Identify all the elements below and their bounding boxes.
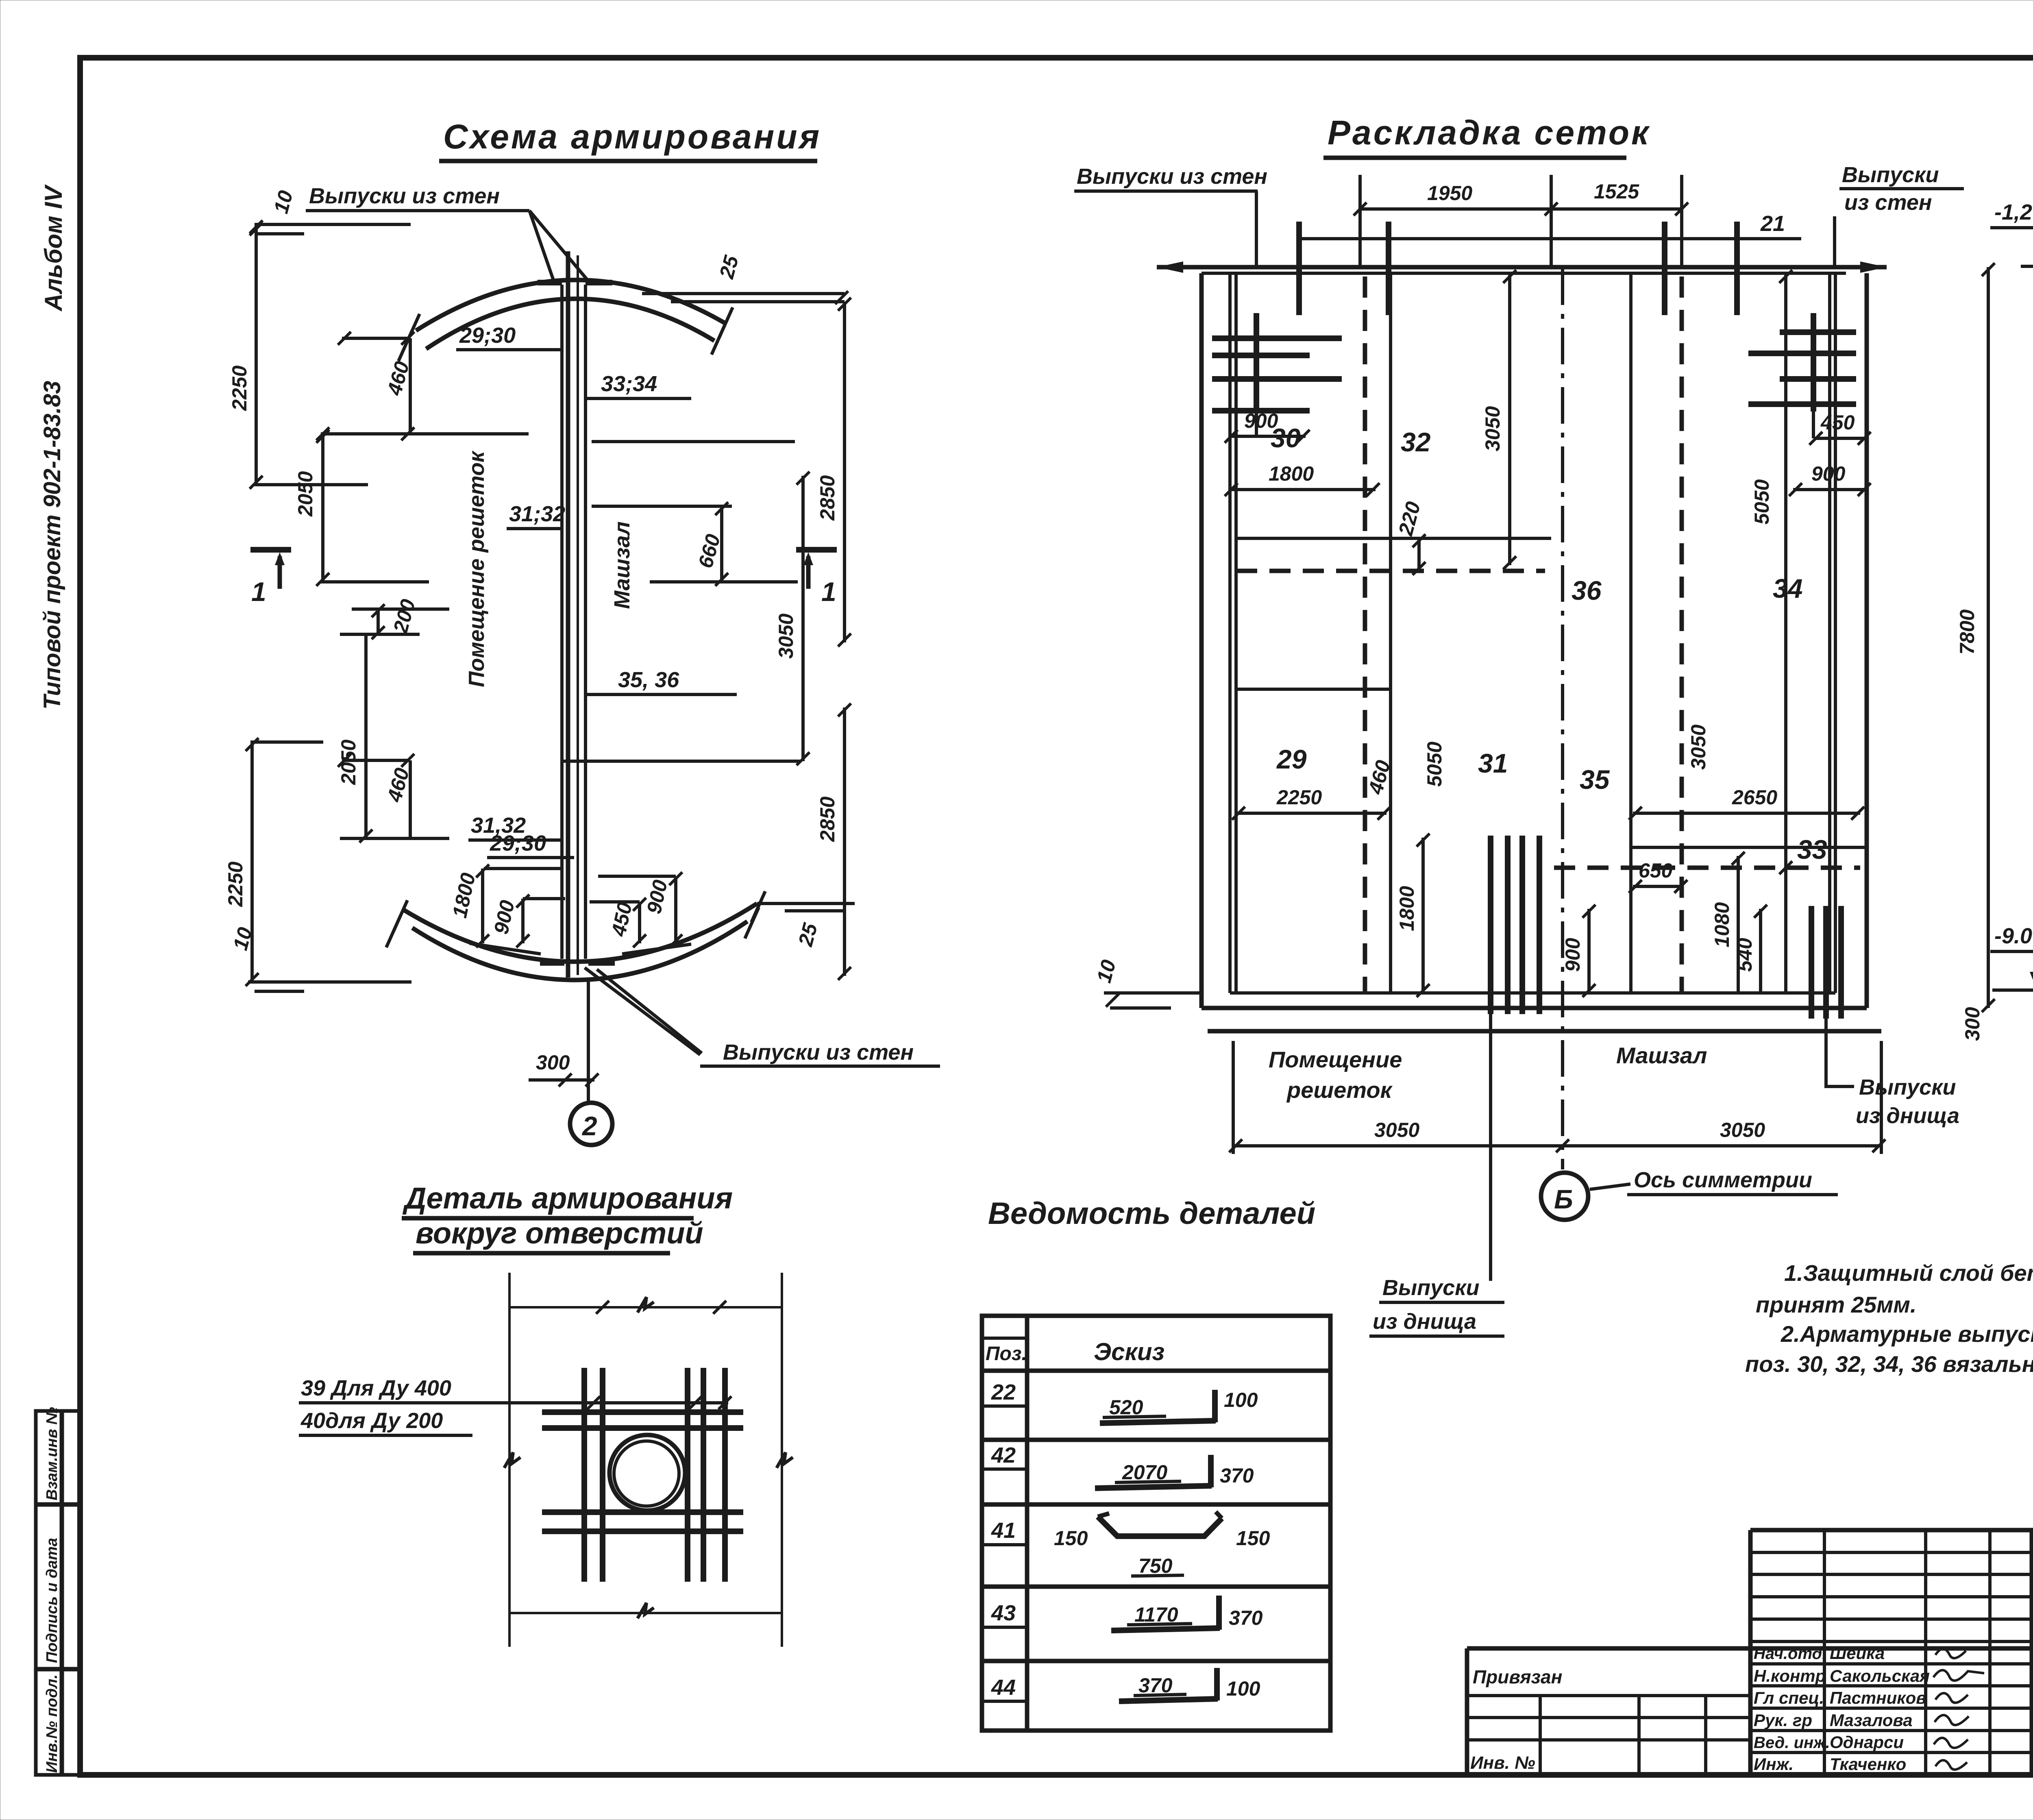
svg-text:900: 900	[490, 898, 519, 936]
line above Стена СТп2	[2032, 1730, 2033, 1735]
tank bottom inner line	[1230, 991, 1835, 995]
tank left wall outer	[1199, 273, 1204, 1008]
svg-text:решеток: решеток	[1286, 1077, 1393, 1103]
svg-text:Однарси: Однарси	[1830, 1733, 1904, 1752]
dim 2250 left upper	[255, 224, 258, 485]
ext line bottom-left (10)	[248, 980, 411, 984]
stamp column row line 1	[36, 1502, 80, 1507]
svg-text:650: 650	[1639, 859, 1673, 882]
label: Ось симметрии	[1590, 1184, 1630, 1189]
svg-text:Инж.: Инж.	[1754, 1755, 1794, 1774]
svg-text:750: 750	[1138, 1554, 1173, 1577]
internal dashed horizontal right	[1554, 866, 1860, 870]
bottom floor arc outer	[403, 903, 757, 962]
svg-text:Выпуски: Выпуски	[1859, 1075, 1956, 1099]
dim 460 upper	[342, 337, 410, 340]
svg-text:Альбом IV: Альбом IV	[40, 184, 67, 312]
svg-text:900: 900	[642, 878, 672, 916]
row line 43	[982, 1659, 1330, 1663]
internal solid horizontal (under 30/32)	[1236, 537, 1551, 540]
stamp column divider vertical	[60, 1411, 64, 1775]
top dim line 1950/1525	[1360, 207, 1682, 211]
svg-text:Нач.отд.: Нач.отд.	[1754, 1645, 1826, 1663]
svg-text:1950: 1950	[1427, 182, 1472, 205]
dim 200	[352, 607, 449, 611]
svg-text:Инв.№ подл.: Инв.№ подл.	[44, 1674, 61, 1773]
svg-text:Взам.инв №: Взам.инв №	[44, 1407, 61, 1500]
svg-text:1.Защитный слой бетона для раб: 1.Защитный слой бетона для рабочей армат…	[1784, 1260, 2033, 1286]
svg-text:1800: 1800	[448, 871, 480, 920]
tank bottom slab line	[1208, 1029, 1881, 1034]
svg-text:Выпуски: Выпуски	[1842, 163, 1939, 187]
symmetry axis dash-dot	[1561, 268, 1564, 1169]
svg-text:3050: 3050	[1374, 1119, 1419, 1141]
svg-text:5050: 5050	[1423, 742, 1446, 787]
internal dashed vertical 2	[1680, 276, 1684, 992]
svg-text:1800: 1800	[1395, 886, 1418, 931]
section mark 1 right	[796, 547, 837, 553]
slab right arrow	[1860, 261, 1887, 273]
row line 41	[982, 1585, 1330, 1589]
svg-text:принят 25мм.: принят 25мм.	[1756, 1292, 1916, 1317]
centre line below wall	[587, 980, 590, 1103]
svg-text:900: 900	[1561, 938, 1584, 972]
internal solid horizontal (29 top)	[1236, 688, 1391, 691]
dim 3050 right	[801, 476, 805, 761]
svg-text:Рук. гр: Рук. гр	[1754, 1711, 1812, 1730]
svg-text:29: 29	[1276, 744, 1307, 774]
bottom dims group	[481, 869, 484, 943]
leader wires to wall top	[529, 211, 555, 285]
poz sub lines	[982, 1404, 1027, 1408]
svg-text:-9.000: -9.000	[1994, 924, 2033, 948]
dim ext top-right (25)	[642, 292, 845, 295]
tank right wall outer	[1865, 273, 1869, 1008]
bottom T bar right	[588, 960, 615, 966]
dim 460 lower	[342, 759, 410, 762]
row 41 sketch	[1098, 1517, 1222, 1536]
svg-text:370: 370	[1229, 1607, 1263, 1629]
svg-text:Ткаченко: Ткаченко	[1830, 1755, 1906, 1774]
dim 2050 left	[321, 434, 324, 582]
bottom T bar left	[540, 960, 564, 966]
svg-text:Ось симметрии: Ось симметрии	[1634, 1168, 1812, 1192]
right wall inner bars (top)	[1780, 329, 1856, 335]
dim 2650	[1633, 812, 1860, 815]
upper roof arc inner	[426, 299, 714, 349]
svg-text:7800: 7800	[1956, 610, 1979, 655]
dim 10 bottom-left of tank	[1104, 991, 1199, 995]
svg-text:41: 41	[991, 1518, 1016, 1543]
opening circle outer	[609, 1435, 685, 1511]
tank top slab line outer	[1157, 265, 1887, 270]
svg-text:450: 450	[607, 900, 636, 938]
upper roof arc outer	[416, 280, 725, 331]
svg-text:Раскладка сеток: Раскладка сеток	[1328, 113, 1651, 152]
vertical stub for bars	[1254, 313, 1259, 411]
svg-text:Деталь армирования: Деталь армирования	[402, 1181, 733, 1215]
row line 22	[982, 1438, 1330, 1442]
svg-text:660: 660	[694, 532, 725, 570]
svg-text:Схема армирования: Схема армирования	[443, 118, 821, 156]
stamp column row line 2	[36, 1667, 80, 1672]
svg-text:Выпуски из стен: Выпуски из стен	[723, 1040, 914, 1065]
svg-text:39 Для Ду 400: 39 Для Ду 400	[301, 1376, 451, 1400]
svg-text:2850: 2850	[816, 797, 839, 842]
svg-text:300: 300	[536, 1051, 570, 1074]
svg-text:25: 25	[794, 920, 822, 949]
svg-text:1800: 1800	[1269, 462, 1314, 485]
svg-text:Н.контр: Н.контр	[1754, 1666, 1826, 1685]
svg-text:-1,200: -1,200	[1994, 200, 2033, 224]
dim 900 top-left	[1231, 435, 1306, 438]
svg-text:из стен: из стен	[1844, 190, 1932, 215]
svg-text:29;30: 29;30	[490, 831, 546, 856]
wall rebar 29/30	[566, 251, 570, 977]
svg-text:25: 25	[715, 253, 743, 281]
svg-text:44: 44	[991, 1675, 1016, 1700]
svg-text:220: 220	[1394, 499, 1425, 538]
svg-text:32: 32	[1401, 427, 1431, 457]
poz header top subline	[982, 1337, 1027, 1340]
svg-text:Подпись и дата: Подпись и дата	[44, 1538, 61, 1663]
row 43 sketch	[1111, 1628, 1220, 1631]
tank top slab line inner	[1202, 272, 1846, 275]
dim 2050 lower	[364, 634, 368, 838]
arc break marks right	[719, 307, 733, 338]
ticks on bar crossings	[596, 1301, 609, 1314]
svg-text:540: 540	[1733, 938, 1756, 972]
svg-text:35: 35	[1580, 764, 1610, 795]
svg-text:900: 900	[1811, 462, 1846, 485]
ext bottom right (25)	[757, 902, 855, 905]
dim 450 top-right	[1813, 437, 1867, 440]
internal solid horizontal (right, above 35)	[1631, 846, 1867, 849]
svg-text:Пастников: Пастников	[1830, 1688, 1926, 1707]
row 22 sketch	[1100, 1421, 1216, 1423]
svg-text:Машзал: Машзал	[1616, 1043, 1707, 1068]
svg-text:Инв. №: Инв. №	[1470, 1753, 1535, 1773]
leader down	[1255, 191, 1258, 266]
svg-text:2: 2	[581, 1111, 597, 1141]
slab left arrow	[1157, 261, 1183, 273]
dim 900 right	[1793, 488, 1867, 491]
svg-text:Поз.: Поз.	[986, 1343, 1027, 1365]
svg-text:Шейка: Шейка	[1830, 1644, 1885, 1663]
dim 650	[1633, 885, 1683, 888]
svg-text:36: 36	[1572, 575, 1602, 605]
row 42 sketch	[1095, 1486, 1212, 1488]
svg-text:2650: 2650	[1732, 786, 1777, 809]
svg-text:из днища: из днища	[1856, 1104, 1959, 1128]
svg-text:2.Арматурные выпуски поз. 21 с: 2.Арматурные выпуски поз. 21 связать с с…	[1781, 1321, 2033, 1347]
svg-text:2250: 2250	[224, 862, 247, 907]
dim 7800 rotated far right	[1987, 267, 1990, 1008]
svg-text:31;32: 31;32	[509, 502, 565, 526]
wall rebar 33/34	[577, 255, 579, 975]
leader to grid	[472, 1401, 728, 1404]
svg-text:Эскиз: Эскиз	[1094, 1338, 1165, 1365]
section mark 1 left	[250, 547, 291, 553]
break marks on square	[638, 1297, 654, 1313]
svg-text:вокруг отверстий: вокруг отверстий	[416, 1216, 703, 1250]
leader to Выпуски из днища (centre)	[1489, 1014, 1492, 1281]
svg-text:Гл спец.: Гл спец.	[1754, 1688, 1824, 1707]
svg-text:1525: 1525	[1594, 180, 1639, 203]
svg-text:450: 450	[1820, 411, 1855, 434]
svg-text:Б: Б	[1554, 1184, 1573, 1214]
bar length dims rotated	[1421, 838, 1425, 993]
svg-text:21: 21	[1760, 211, 1785, 236]
row line 42	[982, 1502, 1330, 1507]
svg-text:Привязан: Привязан	[1473, 1666, 1562, 1687]
svg-text:33;34: 33;34	[601, 372, 657, 396]
svg-text:Выпуски: Выпуски	[1382, 1276, 1480, 1300]
svg-text:Помещение решеток: Помещение решеток	[464, 450, 489, 687]
internal dashed horizontal	[1236, 569, 1545, 573]
internal solid vertical right	[1629, 273, 1632, 993]
header bottom line	[982, 1369, 1330, 1373]
svg-text:3050: 3050	[775, 614, 797, 659]
bottom dim 3050+3050	[1233, 1144, 1881, 1147]
dim 5050 rotated right	[1784, 273, 1787, 993]
bottom arc break marks right	[751, 891, 765, 922]
svg-text:Типовой проект 902-1-83.83: Типовой проект 902-1-83.83	[39, 381, 65, 710]
wall right face	[584, 285, 587, 959]
dim ext line top-left (10)	[255, 223, 411, 226]
svg-text:10: 10	[1093, 957, 1121, 985]
rebar horizontal bars	[542, 1409, 743, 1415]
svg-text:29;30: 29;30	[459, 323, 516, 348]
table outer box	[982, 1316, 1330, 1731]
signatures	[1935, 1649, 1966, 1658]
leader to Выпуски из днища (right)	[1826, 1019, 1854, 1086]
svg-text:3050: 3050	[1687, 725, 1710, 770]
top T bar left	[538, 280, 562, 285]
vertical x=4997	[2030, 1530, 2033, 1775]
dim 2850 right lower	[843, 708, 846, 976]
dim 2850 right upper	[843, 302, 846, 642]
stamp column bottom-left: outer box	[36, 1411, 80, 1775]
svg-text:Машзал: Машзал	[610, 521, 634, 609]
svg-text:5050: 5050	[1750, 479, 1773, 525]
titleblock main horizontal	[1467, 1646, 2033, 1651]
svg-text:900: 900	[1244, 409, 1278, 432]
svg-text:31: 31	[1478, 748, 1508, 778]
svg-text:35, 36: 35, 36	[618, 668, 679, 692]
svg-text:10: 10	[270, 188, 298, 216]
arc break marks left	[406, 314, 420, 345]
svg-text:42: 42	[991, 1443, 1016, 1467]
Привязан box left vertical	[1465, 1648, 1469, 1775]
svg-text:300: 300	[1961, 1007, 1984, 1041]
svg-text:2050: 2050	[294, 471, 317, 517]
left wall inner bars (top)	[1212, 335, 1342, 341]
vertical x=4487	[1823, 1530, 1826, 1775]
bottom outlet bars group centre	[1488, 836, 1493, 1014]
svg-text:поз. 30, 32, 34, 36 вязальной: поз. 30, 32, 34, 36 вязальной проволокой…	[1745, 1351, 2033, 1377]
svg-text:150: 150	[1054, 1527, 1088, 1550]
svg-text:из днища: из днища	[1373, 1309, 1476, 1334]
top T bar right	[586, 280, 612, 285]
rebar vertical bars	[581, 1368, 587, 1582]
axis circle Б	[1541, 1173, 1588, 1220]
central row lines	[1750, 1551, 2032, 1554]
Привязан internals	[1467, 1694, 1750, 1697]
svg-text:370: 370	[1220, 1464, 1254, 1487]
svg-text:150: 150	[1236, 1527, 1270, 1550]
svg-text:22: 22	[991, 1380, 1016, 1404]
internal partition solid vertical	[1389, 273, 1392, 993]
svg-text:40для Ду 200: 40для Ду 200	[300, 1409, 443, 1433]
node circle 2	[570, 1103, 612, 1145]
svg-text:2250: 2250	[228, 366, 251, 411]
svg-text:Выпуски из стен: Выпуски из стен	[1077, 164, 1267, 189]
svg-text:43: 43	[991, 1601, 1016, 1625]
dim 1800	[1231, 488, 1376, 491]
dim line 21	[1299, 237, 1801, 240]
svg-text:3050: 3050	[1720, 1119, 1765, 1141]
leader from wall foot to label	[585, 968, 700, 1055]
svg-text:2850: 2850	[816, 475, 839, 521]
svg-text:2250: 2250	[1276, 786, 1322, 809]
svg-text:Вед. инж.: Вед. инж.	[1754, 1734, 1830, 1752]
bottom arc break marks left	[394, 900, 407, 931]
vertical x=4305	[1748, 1530, 1753, 1775]
svg-text:Мазалова: Мазалова	[1830, 1711, 1913, 1730]
opening circle inner	[614, 1441, 679, 1506]
ext line	[255, 483, 368, 486]
row 44 sketch	[1119, 1699, 1218, 1701]
dim 3050 rotated inner-left	[1508, 273, 1511, 565]
svg-text:1: 1	[251, 577, 266, 607]
svg-text:Сакольская: Сакольская	[1830, 1666, 1930, 1685]
dim 2250 left lower	[250, 742, 254, 982]
dim 2250 (29)	[1236, 812, 1387, 815]
svg-text:Выпуски из стен: Выпуски из стен	[309, 184, 500, 208]
tank left wall inner double	[1228, 273, 1232, 993]
outline extension stubs	[508, 1273, 511, 1307]
ext line right mid	[592, 440, 795, 443]
vertical x=4736	[1924, 1530, 1927, 1775]
top rebar outlet ticks	[1296, 222, 1302, 315]
detail grid: outline square	[509, 1306, 782, 1308]
titleblock top edge	[1750, 1528, 2033, 1533]
tank bottom outer line	[1202, 1006, 1867, 1010]
svg-text:100: 100	[1226, 1677, 1260, 1700]
svg-text:1: 1	[821, 577, 836, 607]
svg-text:Ведомость деталей: Ведомость деталей	[988, 1196, 1315, 1231]
svg-text:200: 200	[389, 597, 420, 636]
wall left face	[560, 285, 564, 959]
svg-text:34: 34	[1773, 573, 1802, 603]
svg-text:3050: 3050	[1481, 406, 1504, 451]
bottom floor arc inner	[412, 921, 747, 980]
svg-text:1080: 1080	[1711, 902, 1733, 947]
internal dashed vertical 1	[1363, 276, 1367, 992]
vertical x=4894	[1988, 1530, 1992, 1775]
bottom outlet bars group right	[1809, 906, 1814, 1019]
svg-text:33: 33	[1797, 834, 1827, 864]
svg-text:Помещение: Помещение	[1269, 1047, 1402, 1072]
dim 660	[720, 506, 723, 582]
poz column vertical	[1025, 1316, 1030, 1731]
svg-text:100: 100	[1224, 1389, 1258, 1411]
tank right wall inner double	[1834, 273, 1837, 993]
